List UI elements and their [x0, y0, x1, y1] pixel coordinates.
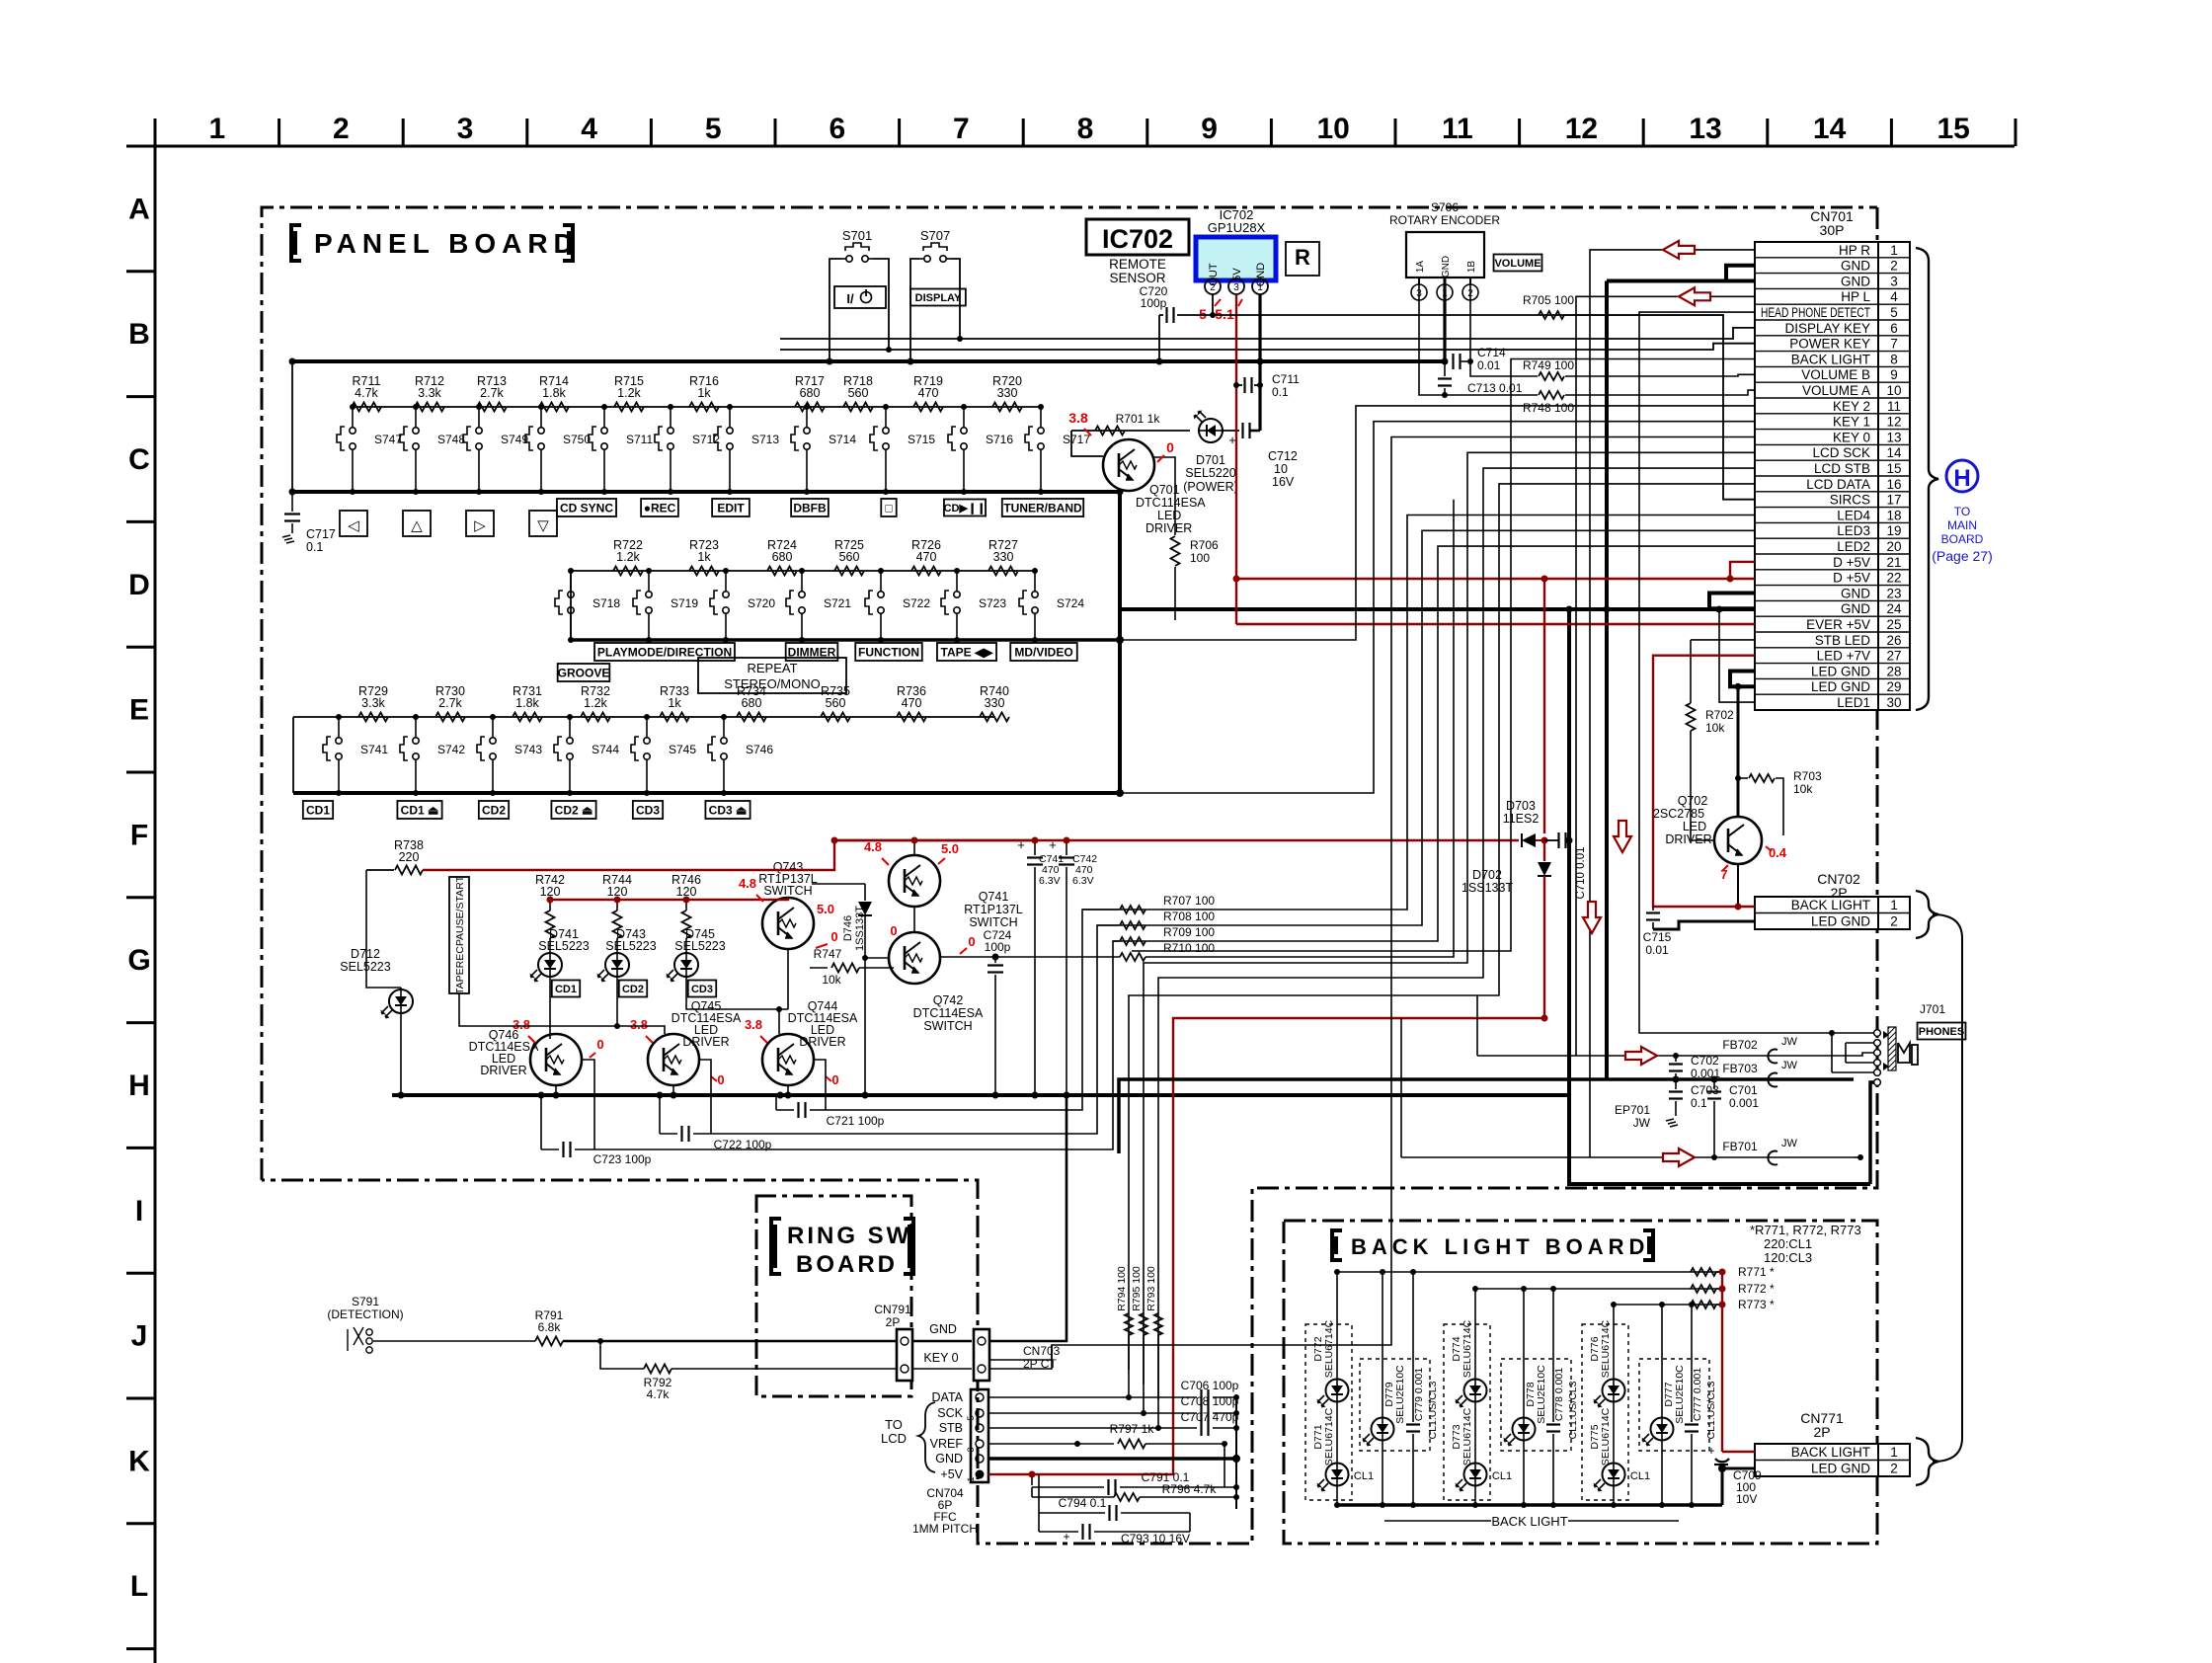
resistor R727 330 [988, 567, 1018, 576]
svg-text:CD1: CD1 [555, 984, 577, 995]
ferrite bead FB703 JW [1768, 1073, 1777, 1087]
diode D746 1SS133T [864, 884, 866, 901]
capacitor C701 0.001 [1711, 1076, 1718, 1083]
capacitor C742 470 6.3V [1066, 840, 1067, 855]
svg-text:5: 5 [966, 1415, 976, 1420]
svg-text:GND: GND [929, 1322, 957, 1336]
resistor R717 680 [795, 403, 825, 412]
switch S743 [492, 717, 494, 733]
wire CN703 KEY0 right [989, 1345, 1052, 1369]
svg-text:GND: GND [1841, 259, 1870, 274]
svg-text:JW: JW [1781, 1036, 1798, 1048]
LED D745 SEL5223 [667, 953, 699, 983]
svg-text:SWITCH: SWITCH [763, 884, 812, 898]
svg-text:TO: TO [885, 1417, 903, 1432]
switch S712 [670, 407, 671, 423]
capacitor C777 0.001 [1691, 1305, 1693, 1422]
svg-text:10: 10 [1274, 462, 1288, 476]
resistor R730 2.7k [435, 713, 465, 722]
svg-text:220:CL1: 220:CL1 [1764, 1236, 1812, 1251]
svg-text:SIRCS: SIRCS [1830, 493, 1870, 508]
svg-text:SELU6714C: SELU6714C [1461, 1407, 1473, 1465]
switch S741 [338, 717, 340, 733]
wire FB702 line [1477, 1055, 1854, 1057]
wire SCK row with C708 [988, 1412, 1197, 1414]
capacitor C717 0.1 [291, 492, 293, 512]
wire row E key bus [293, 791, 1120, 795]
svg-text:7: 7 [953, 113, 970, 145]
svg-text:J701: J701 [1920, 1002, 1945, 1016]
svg-text:SEL5223: SEL5223 [340, 960, 390, 974]
svg-text:3.8: 3.8 [513, 1017, 530, 1032]
svg-text:C723 100p: C723 100p [593, 1152, 652, 1166]
svg-text:RT1P137L: RT1P137L [964, 903, 1023, 916]
svg-text:470: 470 [916, 550, 937, 564]
svg-text:5.0: 5.0 [941, 841, 959, 856]
switch S715 [885, 407, 887, 423]
brace for CN771 [1916, 1438, 1938, 1485]
wire FB701 line [1401, 1156, 1854, 1158]
svg-text:100: 100 [1190, 551, 1210, 565]
resistor R710 100 [1120, 953, 1145, 961]
svg-text:3: 3 [1233, 282, 1239, 293]
EDIT boxed label [712, 499, 750, 516]
svg-text:14: 14 [1813, 113, 1847, 145]
wire pin30 LED1 [1719, 609, 1755, 702]
wire GND row thick [988, 1457, 1236, 1461]
svg-text:C779 0.001: C779 0.001 [1413, 1368, 1425, 1421]
svg-text:R709 100: R709 100 [1163, 925, 1215, 939]
svg-text:R793 100: R793 100 [1145, 1266, 1157, 1311]
CN704 pin SCK [976, 1409, 984, 1417]
svg-text:LCD SCK: LCD SCK [1812, 445, 1870, 460]
resistor R725 560 [834, 567, 864, 576]
switch S718 [570, 571, 572, 587]
LED D777 SELU2E10C [1661, 1305, 1663, 1417]
svg-text:HP L: HP L [1841, 289, 1870, 304]
red arrow on FB702 [1625, 1047, 1657, 1065]
svg-text:1k: 1k [697, 550, 711, 564]
wire jack sleeve thick [1870, 1082, 1874, 1184]
resistor R749 100 [1470, 285, 1538, 376]
capacitor C723 100p [541, 1148, 559, 1150]
svg-text:SEL5223: SEL5223 [605, 939, 656, 953]
svg-text:K: K [128, 1445, 150, 1477]
svg-text:0.4: 0.4 [1769, 845, 1787, 860]
switch S723 [956, 571, 958, 587]
svg-text:LED: LED [1157, 509, 1181, 522]
svg-text:1.2k: 1.2k [616, 550, 640, 564]
svg-text:3.3k: 3.3k [418, 386, 441, 400]
wire Q741 emitter down to Q742 [913, 907, 915, 932]
FUNCTION boxed label [855, 643, 922, 661]
svg-text:+: + [1707, 1444, 1714, 1458]
svg-text:S722: S722 [903, 596, 930, 610]
resistor R738 220 [366, 869, 394, 871]
capacitor C793 10 16V [1038, 1513, 1040, 1532]
svg-text:S706: S706 [1431, 200, 1459, 214]
BACK LIGHT underline label [1384, 1520, 1491, 1522]
svg-text:CD2: CD2 [622, 984, 644, 995]
svg-text:EDIT: EDIT [717, 501, 745, 515]
svg-text:S743: S743 [514, 743, 542, 756]
svg-text:VREF: VREF [930, 1437, 964, 1451]
svg-text:11: 11 [1442, 113, 1473, 145]
capacitor C710 0.01 [1544, 839, 1558, 841]
capacitor C741 470 6.3V [1034, 840, 1036, 855]
svg-text:+5V: +5V [940, 1467, 963, 1481]
svg-text:MAIN: MAIN [1947, 518, 1977, 532]
resistor R724 680 [767, 567, 797, 576]
svg-text:10k: 10k [1705, 721, 1725, 735]
CD SYNC boxed label [557, 499, 616, 516]
svg-text:PANEL BOARD: PANEL BOARD [314, 228, 580, 259]
wire S791 lower to R792 [597, 1338, 603, 1344]
svg-text:GND: GND [935, 1452, 963, 1465]
capacitor C720 100p [1177, 314, 1213, 316]
svg-text:3.8: 3.8 [745, 1017, 762, 1032]
svg-text:11ES2: 11ES2 [1503, 812, 1540, 826]
svg-text:15: 15 [1937, 113, 1970, 145]
svg-text:S744: S744 [592, 743, 619, 756]
LED pair dashed box D774 D773 [1444, 1324, 1490, 1500]
resistor R796 4.7k [1031, 1487, 1033, 1497]
svg-text:S715: S715 [908, 433, 935, 446]
svg-text:27: 27 [1886, 649, 1901, 664]
svg-text:C715: C715 [1643, 930, 1672, 944]
svg-text:LED +7V: LED +7V [1817, 649, 1870, 664]
svg-text:LED2: LED2 [1837, 539, 1870, 554]
wire pin13 KEY0 to CN703 [988, 437, 1755, 1361]
svg-text:3: 3 [1890, 274, 1898, 288]
svg-text:VOLUME B: VOLUME B [1801, 367, 1870, 382]
LED D701 SEL5220 [1194, 411, 1224, 443]
wire row D resistor ladder top [571, 570, 1035, 572]
switch S720 [725, 571, 727, 587]
svg-text:HP R: HP R [1839, 243, 1870, 258]
wire J701 pin stubs [1835, 1032, 1874, 1034]
capacitor C714 0.01 [1452, 354, 1454, 369]
VOLUME boxed label [1494, 255, 1542, 272]
svg-text:VOLUME A: VOLUME A [1802, 383, 1870, 398]
transistor Q741 RT1P137L SWITCH [889, 855, 940, 907]
svg-text:S723: S723 [979, 596, 1006, 610]
svg-text:2.7k: 2.7k [438, 696, 462, 710]
wire pin8 back light [1132, 359, 1755, 952]
svg-text:28: 28 [1886, 664, 1901, 678]
svg-text:R795 100: R795 100 [1131, 1266, 1143, 1311]
svg-text:2.7k: 2.7k [480, 386, 504, 400]
svg-text:26: 26 [1886, 633, 1901, 648]
svg-text:R749 100: R749 100 [1523, 358, 1574, 372]
svg-text:VOLUME: VOLUME [1494, 258, 1540, 270]
svg-text:1B: 1B [1466, 261, 1477, 274]
RING SW BOARD dashed outline [756, 1196, 911, 1396]
LED D712 SEL5223 [381, 990, 414, 1019]
svg-text:680: 680 [772, 550, 793, 564]
svg-text:HEAD PHONE DETECT: HEAD PHONE DETECT [1761, 305, 1870, 320]
resistor R703 10k [1738, 777, 1748, 779]
svg-text:SENSOR: SENSOR [1109, 271, 1165, 285]
switch S750 [540, 407, 542, 423]
svg-text:TUNER/BAND: TUNER/BAND [1003, 501, 1082, 515]
svg-text:R703: R703 [1793, 769, 1822, 783]
svg-text:D701: D701 [1196, 453, 1225, 467]
svg-text:S714: S714 [829, 433, 856, 446]
wire D743 to driver [614, 897, 620, 903]
svg-text:GND: GND [1841, 586, 1870, 600]
wire pin5 head phone detect [1639, 312, 1835, 1033]
capacitor C724 100p [940, 956, 995, 958]
capacitor C721 100p [776, 1109, 794, 1111]
svg-text:3.3k: 3.3k [361, 696, 385, 710]
svg-text:R794 100: R794 100 [1116, 1266, 1128, 1311]
svg-text:KEY 0: KEY 0 [923, 1351, 958, 1365]
svg-text:470: 470 [918, 386, 939, 400]
svg-text:100p: 100p [985, 940, 1011, 954]
svg-text:0: 0 [830, 929, 837, 944]
brace for CN702 [1916, 891, 1938, 938]
CN704 pin DATA [976, 1393, 984, 1401]
diode D702 1SS133T [1543, 840, 1545, 861]
wire FB701 to jack [1854, 1156, 1860, 1158]
svg-text:24: 24 [1886, 601, 1902, 616]
wire red backlight feed [1721, 1272, 1723, 1452]
svg-text:R707 100: R707 100 [1163, 894, 1215, 908]
svg-text:R773 *: R773 * [1738, 1298, 1775, 1311]
resistor R772 [1691, 1285, 1716, 1293]
svg-text:LED: LED [1683, 820, 1706, 833]
wire Q741 collector up [913, 840, 915, 855]
svg-text:10: 10 [1317, 113, 1350, 145]
CD2 eject boxed label [551, 801, 595, 819]
svg-text:EVER +5V: EVER +5V [1806, 617, 1870, 632]
wire R738 left leg [366, 870, 401, 988]
wire Q702 collector to LED GND pins [1737, 686, 1740, 817]
CD1 boxed label [303, 801, 333, 819]
svg-text:DATA: DATA [932, 1390, 964, 1404]
LED D774 SELU6714C [1474, 1289, 1476, 1379]
svg-text:S749: S749 [501, 433, 528, 446]
wire Q702 emitter down [1737, 864, 1739, 907]
svg-text:C713 0.01: C713 0.01 [1467, 381, 1523, 395]
svg-text:+: + [1228, 433, 1236, 447]
wire D745 to driver [683, 897, 689, 903]
resistor R708 100 [1097, 924, 1119, 926]
wire C722 left leg up [659, 1095, 661, 1134]
svg-text:+: + [1063, 1530, 1069, 1544]
svg-text:3.8: 3.8 [1068, 410, 1088, 426]
LED pair dashed box D772 D771 [1305, 1324, 1352, 1500]
svg-text:10k: 10k [1793, 782, 1813, 796]
wire pin26 STB LED [1691, 639, 1755, 641]
resistor R712 3.3k [415, 403, 444, 412]
wire R705 to connector [1565, 314, 1723, 316]
wire pin16 LCD DATA [1129, 484, 1755, 1370]
svg-text:0.1: 0.1 [1691, 1096, 1707, 1110]
svg-text:13: 13 [1689, 113, 1721, 145]
svg-text:L: L [130, 1570, 148, 1603]
svg-text:TAPE ◀▶: TAPE ◀▶ [941, 645, 994, 659]
svg-text:220: 220 [399, 850, 420, 864]
svg-text:4.7k: 4.7k [647, 1387, 671, 1401]
LED D743 SEL5223 [597, 953, 630, 983]
resistor R723 1k [689, 567, 719, 576]
svg-text:BOARD: BOARD [1941, 532, 1984, 546]
resistor R792 4.7k [644, 1365, 671, 1374]
capacitor C702 0.001 [1673, 1053, 1679, 1059]
svg-text:LED GND: LED GND [1811, 1462, 1870, 1476]
connector CN702 2P [1755, 897, 1910, 929]
svg-text:FUNCTION: FUNCTION [858, 645, 919, 659]
switch S746 [723, 717, 725, 733]
svg-text:DBFB: DBFB [793, 501, 827, 515]
svg-text:1: 1 [1890, 243, 1898, 258]
resistor R706 100 [1152, 457, 1175, 535]
svg-text:D: D [128, 569, 150, 601]
svg-text:R702: R702 [1705, 708, 1734, 722]
svg-text:SWITCH: SWITCH [923, 1019, 972, 1033]
svg-text:S791: S791 [352, 1295, 379, 1308]
svg-text:Q702: Q702 [1678, 794, 1708, 808]
switch S722 [880, 571, 882, 587]
svg-text:LED3: LED3 [1837, 523, 1870, 538]
svg-text:330: 330 [997, 386, 1018, 400]
wire Q745 collector down to C722 line [699, 1060, 711, 1134]
resistor R733 1k [660, 713, 689, 722]
resistor R701 1k [1095, 427, 1125, 436]
svg-text:S713: S713 [751, 433, 779, 446]
capacitor C794 0.1 [1038, 1474, 1040, 1513]
svg-text:C706 100p: C706 100p [1181, 1379, 1239, 1392]
switch S711 [603, 407, 605, 423]
wire Q742 emitter line R710 [995, 956, 1120, 958]
svg-text:LED GND: LED GND [1811, 664, 1870, 678]
svg-text:(Page 27): (Page 27) [1932, 548, 1992, 564]
wire J701 vertical links [1845, 1043, 1847, 1063]
REPEAT STEREO/MONO boxed label [698, 658, 846, 693]
wire red LED +7V pin27 [1653, 656, 1755, 907]
wire S707 left to bus [910, 259, 919, 361]
capacitor C711 0.1 [1236, 384, 1242, 386]
svg-text:R: R [1295, 245, 1310, 270]
svg-text:LED1: LED1 [1837, 695, 1870, 710]
svg-text:1: 1 [1890, 1445, 1898, 1460]
svg-text:SELU6714C: SELU6714C [1323, 1319, 1335, 1378]
transistor Q701 DTC114ESA LED DRIVER [1103, 439, 1154, 491]
red down arrow 2 [1583, 902, 1601, 933]
svg-text:E: E [129, 694, 149, 727]
CD2 boxed label [619, 981, 647, 997]
switch S719 [648, 571, 650, 587]
TAPE boxed label [937, 643, 996, 661]
wire backlight group rail D774 [1475, 1288, 1722, 1290]
svg-text:△: △ [411, 517, 423, 534]
LED mid dashed box D777 [1639, 1359, 1709, 1451]
svg-text:560: 560 [826, 696, 846, 710]
svg-text:8: 8 [1077, 113, 1094, 145]
RING SW BOARD title [771, 1219, 781, 1274]
svg-text:JW: JW [1633, 1116, 1651, 1130]
resistor R711 4.7k [352, 403, 381, 412]
svg-text:CD2 ⏏: CD2 ⏏ [555, 803, 593, 817]
transistor Q702 2SC2785 LED DRIVER [1714, 817, 1762, 864]
svg-text:CL1: CL1 [1354, 1470, 1374, 1482]
DBFB boxed label [791, 499, 829, 516]
resistor R702 10k [1687, 703, 1696, 731]
red arrow on FB701 [1663, 1148, 1695, 1166]
svg-text:SELU2E10C: SELU2E10C [1536, 1365, 1547, 1424]
wire Q701 base line [1071, 430, 1190, 432]
svg-text:1k: 1k [697, 386, 711, 400]
svg-text:S711: S711 [626, 433, 653, 446]
svg-text:KEY 1: KEY 1 [1833, 415, 1870, 430]
wire pin20 LED2 chain [575, 546, 1755, 1149]
svg-text:3: 3 [966, 1447, 976, 1452]
capacitor C779 0.001 [1412, 1272, 1414, 1422]
ferrite bead FB701 JW [1768, 1151, 1777, 1165]
wire GND vertical right down to jack sleeve [1569, 609, 1870, 1184]
svg-text:1k: 1k [668, 696, 681, 710]
svg-text:5: 5 [705, 113, 722, 145]
svg-text:S724: S724 [1057, 596, 1084, 610]
wire row C key bus [292, 490, 1120, 494]
I/O power boxed label [834, 286, 886, 308]
svg-text:KEY 0: KEY 0 [1833, 430, 1870, 444]
capacitor C712 10 16V [1223, 430, 1239, 432]
svg-text:S745: S745 [669, 743, 696, 756]
wire red 5V from IC702 down [1235, 294, 1237, 624]
svg-text:6.8k: 6.8k [538, 1320, 562, 1334]
svg-text:C717: C717 [306, 527, 336, 541]
svg-text:10V: 10V [1736, 1492, 1757, 1506]
svg-text:C702: C702 [1691, 1054, 1719, 1068]
IC702 pin 5V [1228, 278, 1244, 294]
svg-text:DISPLAY: DISPLAY [915, 292, 962, 304]
svg-text:DRIVER: DRIVER [480, 1064, 526, 1077]
svg-text:120:CL3: 120:CL3 [1764, 1250, 1812, 1265]
wire C723 left leg up [540, 1095, 542, 1149]
svg-text:S716: S716 [986, 433, 1013, 446]
svg-text:LCD: LCD [881, 1431, 907, 1446]
ferrite bead FB702 JW [1768, 1050, 1777, 1064]
svg-text:5: 5 [1890, 305, 1898, 320]
resistor R736 470 [897, 713, 926, 722]
svg-text:4.8: 4.8 [864, 839, 882, 854]
svg-text:BACK LIGHT BOARD: BACK LIGHT BOARD [1351, 1234, 1649, 1259]
svg-text:14: 14 [1886, 445, 1902, 460]
LED D775 SELU6714C [1613, 1402, 1615, 1463]
svg-text:25: 25 [1886, 617, 1901, 632]
resistor R740 330 [980, 713, 1009, 722]
wire red horizontal D703 line [834, 839, 1519, 841]
wire pin15 LCD STB [1158, 468, 1755, 1399]
svg-text:SELU6714C: SELU6714C [1600, 1407, 1612, 1465]
svg-text:16: 16 [1886, 477, 1901, 492]
wire row E left end [292, 717, 294, 793]
wire C721 left leg up [775, 1095, 777, 1110]
svg-text:4.7k: 4.7k [355, 386, 378, 400]
svg-text:CD3: CD3 [691, 984, 713, 995]
wire CN791 to CN703 GND [912, 1340, 972, 1343]
switch S724 [1034, 571, 1036, 587]
wire CN702 brace to CN771 brace [1933, 914, 1962, 1462]
resistor R734 680 [737, 713, 766, 722]
svg-text:CD3: CD3 [636, 803, 660, 817]
svg-text:SELU6714C: SELU6714C [1323, 1407, 1335, 1465]
wire main GND bus horizontal [292, 359, 1445, 363]
svg-text:680: 680 [800, 386, 821, 400]
